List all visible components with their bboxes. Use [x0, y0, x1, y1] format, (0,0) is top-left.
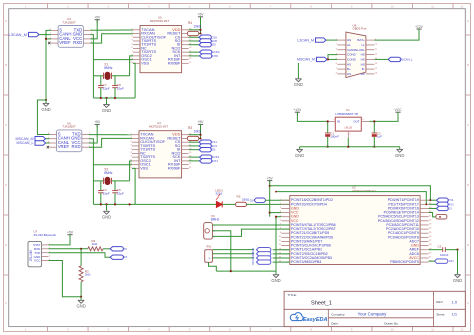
svg-text:ZS-040: ZS-040: [29, 250, 33, 261]
wire OBD2 ground drop: [297, 63, 299, 78]
port flag D2 net: [250, 198, 266, 202]
port flag RX1: [436, 202, 454, 206]
svg-text:TITLE:: TITLE:: [288, 293, 297, 297]
svg-text:SI1: SI1: [211, 148, 216, 152]
wire MOSI to chip: [273, 249, 290, 251]
port flag SI0: [199, 43, 216, 47]
junction CANL/S: [45, 38, 47, 40]
wire L3CAN_M to OBD2 pin1: [326, 39, 337, 41]
ground rail regulator: [300, 146, 400, 148]
svg-text:+5V: +5V: [198, 13, 205, 17]
svg-text:ZS-040 Bluetooth: ZS-040 Bluetooth: [34, 233, 57, 237]
wire COND pins junction: [328, 55, 337, 60]
port flag RX: [110, 255, 127, 259]
wire +12V to IN: [297, 112, 327, 121]
wire module GND loop: [49, 261, 82, 297]
svg-text:B: B: [5, 63, 7, 67]
wire CS row2: [189, 141, 199, 143]
svg-text:VREF: VREF: [59, 40, 71, 45]
EasyEDA logo: [290, 313, 327, 323]
svg-text:22pF: 22pF: [103, 86, 110, 90]
wire SI row: [189, 44, 199, 46]
junction VDD2: [199, 134, 201, 136]
wire AREF/GND row to cap: [429, 249, 443, 251]
wire S pin to ground rail: [46, 30, 51, 100]
port flag D3: [436, 206, 452, 210]
port flag CS1: [199, 140, 217, 144]
wire MSCAN_M to CANH: [46, 138, 50, 140]
resistor R4 10k: [187, 21, 201, 35]
wire R3 to +5V rail: [199, 137, 201, 139]
wire MSCAN_L to CANL: [46, 142, 50, 144]
wire resonator pin1 to XTAL1: [212, 224, 289, 226]
svg-text:11: 11: [431, 5, 434, 9]
svg-text:RX0BF: RX0BF: [168, 165, 181, 170]
ground GND3: [102, 211, 111, 219]
wire MSCAN_M to OBD2 pin5: [327, 58, 337, 60]
svg-text:GND: GND: [294, 82, 303, 87]
svg-text:HS: HS: [361, 58, 365, 62]
wire RN1 pin2 to PB2 row: [212, 253, 254, 255]
top rail to right side B: [276, 192, 426, 205]
port flag SI1: [199, 147, 216, 151]
port flag INT1: [200, 159, 219, 163]
svg-text:SI0: SI0: [211, 43, 216, 47]
svg-text:E: E: [467, 243, 469, 247]
svg-text:ANL: ANL: [359, 48, 365, 52]
port flag SCK1: [200, 155, 220, 159]
svg-text:TX: TX: [123, 247, 127, 251]
svg-text:COND: COND: [347, 53, 357, 57]
power +5V (module): [67, 231, 74, 238]
svg-text:L3CAN_M: L3CAN_M: [297, 38, 314, 42]
ground GND4: [271, 275, 280, 283]
svg-text:VSS: VSS: [141, 60, 149, 65]
wire PB5 to D13: [429, 260, 435, 262]
wire CS row: [189, 36, 199, 38]
svg-text:12: 12: [460, 5, 464, 9]
wire INT row2: [189, 160, 200, 162]
port flag INT0: [200, 54, 219, 58]
svg-text:100nF: 100nF: [330, 135, 339, 139]
wire row2R to flag: [429, 203, 437, 205]
svg-text:R4: R4: [188, 21, 192, 25]
ceramic resonator X3 8MHz: [204, 214, 220, 239]
wire row1R to flag: [429, 199, 437, 201]
wire U6 RXD to U4 RXCAN: [89, 138, 132, 147]
wire CANL to junction: [46, 38, 51, 40]
svg-text:MCP2515-I/ST: MCP2515-I/ST: [149, 124, 168, 128]
svg-text:MCP2515-I/ST: MCP2515-I/ST: [150, 19, 169, 23]
wire STAT row to +5V: [49, 235, 71, 245]
top rail to right side A: [270, 186, 431, 200]
port flag SO1: [199, 144, 217, 148]
power +5V (U6 VCC): [94, 120, 101, 127]
port flag MOSI: [252, 248, 271, 254]
svg-text:11: 11: [431, 328, 434, 332]
CAN transceiver U6 TJA1050T: [47, 121, 91, 151]
power +12V (OBD2 BAT): [415, 25, 424, 32]
wire OSC2b to crystal: [130, 161, 132, 181]
svg-text:8MHz: 8MHz: [211, 217, 220, 221]
wire GND7 stem: [299, 147, 301, 149]
svg-text:330Ω: 330Ω: [242, 197, 250, 201]
wire U6 VCC to +5V: [89, 124, 97, 143]
resistor R5 330: [236, 194, 250, 206]
svg-text:R3: R3: [188, 126, 192, 130]
svg-text:TJA1050T: TJA1050T: [62, 20, 76, 24]
power +5V (R4 pullup): [198, 13, 205, 20]
wire RN1 bottom to ground rail: [209, 262, 217, 271]
svg-text:2kΩ: 2kΩ: [85, 273, 91, 277]
wire OBD2 pin13 to MSCAN_L: [374, 58, 388, 60]
svg-text:22pF: 22pF: [103, 192, 110, 196]
LED1: [215, 188, 223, 207]
wire R4 to +5V rail: [199, 33, 201, 35]
port flag SS: [252, 260, 271, 265]
wire OSC1 to crystal left: [93, 59, 133, 61]
svg-text:HS: HS: [347, 72, 351, 76]
wire SCK row: [189, 51, 200, 53]
ground rail circuit1: [93, 97, 135, 99]
svg-text:EasyEDA: EasyEDA: [303, 317, 327, 323]
bluetooth module U7 ZS-040: [28, 230, 56, 267]
capacitor C1 100nF: [325, 121, 339, 146]
port flag L3CAN_M: [9, 32, 40, 37]
power VCC (reg out): [395, 108, 403, 115]
wire U6 GND down to rail: [89, 139, 94, 205]
svg-text:RXD: RXD: [72, 144, 81, 149]
wire OUT to VCC: [369, 112, 398, 121]
wire U3 TXD to U5 TXCAN: [90, 29, 133, 31]
svg-text:F: F: [5, 301, 7, 305]
wire SO row: [189, 40, 199, 42]
svg-text:B-: B-: [362, 67, 365, 71]
port flag MSCAN_M: [16, 137, 46, 141]
svg-text:B: B: [467, 63, 469, 67]
svg-text:+12V: +12V: [415, 25, 424, 29]
wire D2 flag to ATmega row1: [265, 199, 290, 201]
wire R1 to TX flag: [103, 248, 110, 250]
ground rail ATmega: [216, 270, 276, 272]
power +5V (U3 VCC): [94, 16, 101, 23]
svg-text:VCC: VCC: [34, 259, 41, 263]
capacitor C5 22pF: [112, 181, 124, 205]
resistor R3 10k: [187, 126, 201, 140]
svg-text:GND: GND: [271, 278, 280, 283]
svg-text:D13: D13: [449, 260, 454, 263]
svg-text:GND: GND: [76, 304, 85, 309]
port flag L3CAN_M (OBD2): [297, 38, 326, 42]
svg-text:L78M05ABDT-TR: L78M05ABDT-TR: [335, 112, 358, 116]
ground GND8: [395, 149, 404, 157]
connector U8 OBD2 Port: [336, 23, 378, 77]
CAN controller U5 MCP2515-I/ST: [130, 16, 192, 73]
wire to GND2: [106, 98, 108, 104]
svg-text:VSS: VSS: [140, 165, 148, 170]
wire junction to R2: [80, 249, 82, 266]
svg-text:RXD: RXD: [73, 40, 82, 45]
svg-text:Company:: Company:: [331, 312, 345, 316]
capacitor C2 1uF: [372, 121, 383, 146]
wire RN1 pin3 to PB3 row: [212, 257, 254, 259]
port flag CS0: [199, 35, 217, 39]
wire ground vertical: [275, 217, 277, 271]
svg-text:10: 10: [391, 328, 395, 332]
resistor R2 2k: [79, 266, 91, 282]
svg-text:22pF: 22pF: [117, 86, 124, 90]
wire OSC1b to crystal left: [93, 164, 132, 166]
svg-text:A: A: [467, 19, 469, 23]
resistor R6 (reset): [429, 212, 447, 219]
svg-text:TJA1050T: TJA1050T: [62, 125, 76, 129]
svg-text:LL: LL: [361, 43, 365, 47]
wire cap to gnd corner: [445, 249, 457, 251]
port flag MSCAN_L (OBD2): [388, 57, 413, 61]
svg-text:RX: RX: [123, 255, 127, 259]
wire VCC row left: [270, 212, 282, 214]
wire RN1 pin1 to PB1 row: [212, 249, 254, 251]
wire MISO to chip: [273, 253, 290, 255]
svg-text:E: E: [5, 243, 7, 247]
svg-text:R5: R5: [237, 194, 241, 198]
svg-text:IN: IN: [337, 120, 340, 124]
wire +5V vertical distribution: [269, 181, 271, 217]
svg-text:VCC: VCC: [395, 108, 403, 112]
wire row3R to flag: [429, 207, 437, 209]
wire GND8 stem: [399, 147, 401, 149]
crystal X2 8MHz: [93, 168, 129, 185]
port flag SCK: [252, 256, 271, 262]
wire GND9 stem: [80, 297, 82, 300]
svg-text:CAN#NL: CAN#NL: [347, 48, 359, 52]
svg-text:HS: HS: [347, 38, 351, 42]
power +5V (R3 pullup): [198, 120, 205, 127]
port flag SCK0: [200, 50, 220, 54]
wire OSC2 to crystal: [130, 56, 133, 76]
wire R2 to gnd junction: [80, 282, 82, 297]
svg-text:GND: GND: [453, 278, 462, 283]
wire SO row2: [189, 145, 199, 147]
svg-text:GND: GND: [395, 153, 404, 158]
wire SCK to chip: [273, 257, 290, 259]
wire U3 GND down: [90, 35, 93, 98]
port flag TX1: [436, 198, 453, 202]
svg-text:VREF: VREF: [58, 144, 70, 149]
svg-text:MSCAN_L: MSCAN_L: [400, 58, 414, 62]
svg-text:HS: HS: [361, 72, 365, 76]
svg-text:+5V: +5V: [94, 120, 101, 124]
wire SCK row2: [189, 156, 200, 158]
svg-text:Sheet:: Sheet:: [436, 313, 445, 317]
resistor network RN1: [205, 246, 213, 263]
svg-text:MSCAN_L: MSCAN_L: [17, 141, 34, 145]
svg-text:+5V: +5V: [67, 231, 74, 235]
svg-text:REV:: REV:: [436, 300, 443, 304]
wire TXD row to RX flag: [49, 253, 111, 258]
wire RXD row to R1: [49, 248, 88, 250]
svg-text:10: 10: [391, 5, 395, 9]
capacitor C3 100nF: [438, 245, 449, 258]
svg-text:AL: AL: [347, 43, 351, 47]
port flag D13: [435, 259, 455, 263]
svg-text:BAT+: BAT+: [357, 38, 365, 42]
port flag TX: [110, 247, 127, 251]
svg-text:GND: GND: [41, 107, 50, 112]
ground GND5: [453, 275, 462, 283]
svg-text:Sheet_1: Sheet_1: [311, 301, 332, 307]
regulator U1 L78M05ABDT-TR: [327, 108, 369, 138]
power +5V (ATmega): [267, 176, 274, 183]
svg-text:Drawn By:: Drawn By:: [384, 321, 398, 325]
svg-text:+5V: +5V: [198, 120, 205, 124]
wire resonator pin3 to XTAL2: [212, 229, 289, 236]
svg-text:INT0: INT0: [212, 54, 219, 58]
svg-text:100nF: 100nF: [440, 253, 449, 257]
svg-text:+12V: +12V: [294, 108, 303, 112]
port flag SO0: [199, 39, 217, 43]
svg-text:1.0: 1.0: [452, 299, 458, 304]
ground GND6: [294, 79, 303, 87]
svg-text:HS: HS: [361, 62, 365, 66]
svg-text:INT1: INT1: [212, 159, 219, 163]
wire VDD row: [189, 29, 201, 31]
svg-text:COND: COND: [347, 58, 357, 62]
crystal X1 8MHz: [93, 63, 129, 80]
port flag MISO: [252, 252, 271, 258]
svg-text:ATMEGA328P-AU: ATMEGA328P-AU: [352, 189, 376, 193]
resistor R1 1k: [88, 239, 103, 251]
capacitor C8 22pF: [112, 76, 124, 98]
svg-text:SS: SS: [252, 261, 255, 265]
svg-text:HS: HS: [347, 62, 351, 66]
CAN controller U4 MCP2515-I/ST: [129, 121, 192, 178]
svg-text:C3: C3: [438, 245, 442, 249]
wire VDD row2: [189, 134, 201, 136]
svg-text:1uF: 1uF: [377, 135, 382, 139]
wire resonator pin2 to ground: [212, 231, 230, 271]
wire INT row: [189, 55, 200, 57]
capacitor C4 22pF: [98, 181, 110, 205]
wire BAT+ to +12V: [374, 29, 419, 40]
svg-text:RX0BF: RX0BF: [168, 60, 181, 65]
wire L3CAN_M to CANH: [39, 34, 51, 36]
wire VSS down: [133, 63, 135, 98]
wire U6 TXD to U4 TXCAN: [89, 134, 132, 136]
ground GND7: [295, 149, 304, 157]
wire U3 RXD to U5 RXCAN: [90, 34, 133, 43]
svg-text:OUT: OUT: [353, 120, 360, 124]
svg-text:Your Company: Your Company: [358, 312, 388, 317]
svg-text:12: 12: [460, 328, 464, 332]
port flag MSCAN_M (OBD2): [297, 57, 327, 61]
CAN transceiver U3 TJA1050T: [48, 17, 93, 47]
svg-text:GND: GND: [102, 215, 111, 220]
microcontroller U2 ATMEGA328P-AU: [279, 186, 433, 265]
wire reg gnd pin down: [347, 138, 349, 147]
svg-text:PB5/SCK/PCINT5: PB5/SCK/PCINT5: [390, 260, 419, 264]
svg-text:SCK: SCK: [252, 256, 255, 261]
svg-text:8MHz: 8MHz: [104, 66, 113, 70]
power +12V (reg in): [294, 108, 303, 115]
svg-text:MSCAN_M: MSCAN_M: [297, 58, 315, 62]
svg-text:1/1: 1/1: [452, 312, 458, 317]
svg-text:10kΩ: 10kΩ: [194, 24, 202, 28]
ground GND9: [76, 300, 85, 308]
svg-text:OBD2 Port: OBD2 Port: [353, 27, 367, 31]
svg-text:1kΩ: 1kΩ: [92, 242, 98, 246]
svg-text:LM_05: LM_05: [345, 127, 353, 130]
svg-text:A: A: [5, 19, 7, 23]
svg-text:F: F: [467, 301, 469, 305]
wire U3 VCC to +5V: [90, 20, 97, 39]
svg-text:GND: GND: [295, 153, 304, 158]
wire LED to R5: [223, 203, 236, 205]
capacitor C7 22pF: [98, 76, 110, 98]
svg-text:L3CAN_M: L3CAN_M: [9, 32, 27, 37]
svg-text:HS: HS: [361, 53, 365, 57]
ground GND2: [102, 105, 111, 113]
wire GND row left: [276, 216, 281, 218]
svg-text:RN1: RN1: [207, 246, 212, 249]
wire VSSb down: [132, 168, 135, 204]
title block: [284, 291, 465, 326]
svg-text:10kΩ: 10kΩ: [194, 129, 202, 133]
wire +5V to R4/VDD: [200, 17, 202, 34]
ground rail circuit2 / LED row: [93, 203, 216, 205]
wire +5V to R3/VDD: [200, 124, 202, 138]
svg-text:D3: D3: [448, 206, 452, 210]
svg-text:Date:: Date:: [331, 321, 339, 325]
wire circuit1 gnd to U6 S pin: [37, 100, 49, 135]
wire SS to chip: [273, 261, 290, 263]
ground GND1: [45, 99, 47, 101]
svg-text:+5V: +5V: [267, 176, 274, 180]
wire SI row2: [189, 149, 199, 151]
svg-text:PCINT4/MISO/PB4: PCINT4/MISO/PB4: [291, 260, 321, 264]
port flag MSCAN_L: [17, 141, 46, 145]
svg-text:8MHz: 8MHz: [104, 171, 113, 175]
wire to GND3: [106, 204, 108, 210]
wire R5 to ATmega PD4 row: [246, 203, 289, 205]
junction VDD: [199, 29, 201, 31]
svg-text:22pF: 22pF: [117, 192, 124, 196]
svg-text:+5V: +5V: [94, 16, 101, 20]
wire to GND4: [275, 271, 277, 274]
svg-text:GND: GND: [102, 108, 111, 113]
svg-text:B+: B+: [347, 67, 351, 71]
